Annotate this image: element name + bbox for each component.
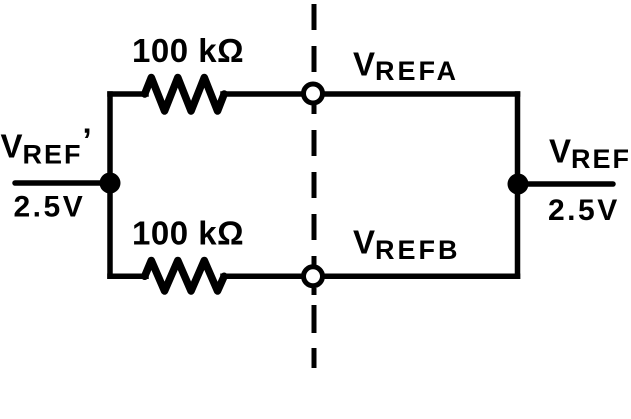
wire: top wire right segment: [223, 91, 518, 97]
svg-text:2.5V: 2.5V: [548, 194, 620, 227]
svg-text:2.5V: 2.5V: [14, 191, 86, 224]
resistor R1 100 kOhm (top): [145, 78, 224, 112]
svg-text:VREFB: VREFB: [353, 224, 461, 266]
dashed partition line (below VREFB node): [312, 305, 317, 368]
node terminal VREFA (open circle): [304, 84, 323, 103]
svg-text:VREF: VREF: [549, 133, 631, 175]
svg-text:100 kΩ: 100 kΩ: [132, 32, 244, 69]
svg-text:VREFA: VREFA: [353, 46, 459, 87]
wire: left vertical bus: [107, 94, 113, 276]
resistor R2 100 kOhm (bottom): [145, 261, 224, 292]
svg-text:VREF’: VREF’: [1, 122, 92, 170]
svg-text:100 kΩ: 100 kΩ: [132, 215, 244, 252]
wire: right vertical bus: [515, 94, 521, 276]
node terminal VREFB (open circle): [304, 267, 323, 286]
wire: dash stub below VREFB node: [312, 288, 317, 295]
junction dot: right VREF node: [508, 174, 529, 195]
wire: top wire left segment: [110, 91, 146, 97]
wire: left input lead from VREF': [15, 180, 110, 186]
wire: right output lead to VREF: [518, 181, 614, 187]
junction dot: left VREF' node: [100, 173, 121, 194]
wire: bottom wire right segment: [223, 274, 518, 280]
wire: bottom wire left segment: [110, 274, 146, 280]
dashed partition line: [312, 4, 317, 282]
